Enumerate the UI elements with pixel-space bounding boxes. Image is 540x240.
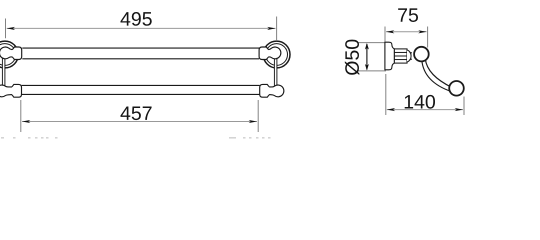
dim 495: right arrowhead xyxy=(267,27,275,30)
collar end rim xyxy=(407,50,411,62)
lower bar ball (side) xyxy=(449,81,464,96)
dim 495: left extension line xyxy=(5,19,7,39)
dim 457: left arrowhead xyxy=(22,120,30,123)
hanger arm (side, curved tube) xyxy=(422,59,452,92)
top towel bar xyxy=(22,48,259,59)
dim 495: label xyxy=(120,12,151,26)
dim 495: right extension line xyxy=(276,17,278,41)
dim 457: dimension line xyxy=(22,121,257,123)
dim 457: label xyxy=(120,106,151,120)
left wall flange (front): inner ring xyxy=(0,44,16,66)
dim Ø50: top arrowhead xyxy=(365,43,369,50)
wall flange profile (side) xyxy=(385,42,395,70)
dim 75: left extension line (wall plane) xyxy=(384,27,386,42)
dim Ø50: label (rotated) xyxy=(345,40,359,75)
dim Ø50: bottom leader line xyxy=(358,70,386,72)
right wall flange (front): inner ring xyxy=(266,44,288,66)
dim 495: dimension line xyxy=(7,27,276,29)
bottom-right bar holder xyxy=(260,84,284,97)
dim Ø50: vertical arrow line xyxy=(366,44,368,70)
socket neck to ball xyxy=(410,53,413,60)
dim 457: left extension line xyxy=(20,100,22,132)
dim 75: left arrowhead xyxy=(386,30,394,33)
dim 140: right extension line xyxy=(463,97,465,116)
left drop post (front) xyxy=(2,56,5,86)
dim 140: left extension line xyxy=(385,74,387,115)
dim 140: right arrowhead xyxy=(455,108,463,111)
dim 457: right arrowhead xyxy=(249,120,257,123)
dim Ø50: bottom arrowhead xyxy=(365,64,369,71)
bottom towel bar xyxy=(22,85,260,95)
dim 457: right extension line xyxy=(257,100,259,132)
dim 75: dimension line xyxy=(386,31,427,33)
ribbed collar (side) xyxy=(394,49,412,63)
dim 75: right extension line xyxy=(427,27,429,48)
dim 495: left arrowhead xyxy=(7,27,15,30)
faint cropped marks at bottom xyxy=(1,137,271,139)
left wall flange (front): outer circle xyxy=(0,41,18,68)
bottom-left bar holder xyxy=(0,84,21,97)
dim 140: label xyxy=(405,95,435,109)
right drop post (front) xyxy=(274,56,277,86)
dim Ø50: top leader line xyxy=(358,42,386,44)
dim 75: label xyxy=(398,8,418,22)
dim 140: left arrowhead xyxy=(387,108,395,111)
pivot ball (side) xyxy=(414,47,429,62)
dim 140: dimension line xyxy=(387,109,463,111)
dim 75: right arrowhead xyxy=(418,30,426,33)
top-right bar holder xyxy=(259,47,281,60)
right wall flange (front): outer circle xyxy=(263,41,290,68)
top-left bar holder xyxy=(0,47,22,60)
